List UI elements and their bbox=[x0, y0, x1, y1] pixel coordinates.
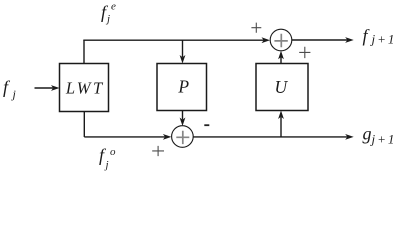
svg-text:j+1: j+1 bbox=[370, 32, 397, 47]
node f_j^e label bbox=[101, 1, 116, 26]
svg-text:g: g bbox=[363, 124, 372, 144]
adder circle (top sum) bbox=[270, 29, 292, 51]
plus sign at top adder bottom input bbox=[299, 47, 310, 58]
block LWT bbox=[60, 64, 109, 112]
svg-text:P: P bbox=[177, 77, 189, 97]
node g_j+1 label bbox=[363, 124, 397, 147]
wire bottom rail f_j^o into adder bbox=[84, 134, 171, 140]
wire top rail f_j^e bbox=[83, 37, 270, 43]
node f_j label bbox=[3, 77, 17, 101]
plus sign at adder left input bbox=[152, 146, 164, 156]
wire U output to top adder bbox=[278, 51, 284, 64]
wire output f_j+1 bbox=[292, 37, 354, 43]
plus sign at top adder left input bbox=[251, 23, 261, 33]
node f_j+1 label bbox=[363, 26, 397, 47]
svg-text:LWT: LWT bbox=[65, 79, 105, 98]
wire LWT top to top rail bbox=[83, 40, 85, 63]
wire input arrow into LWT bbox=[35, 85, 60, 91]
svg-text:U: U bbox=[274, 77, 288, 97]
block P bbox=[157, 64, 207, 111]
wire bottom rail output g_j+1 bbox=[193, 134, 354, 140]
node f_j^o label bbox=[99, 145, 116, 171]
wire LWT bottom to bottom rail bbox=[83, 112, 85, 138]
wire junction up to U bbox=[278, 111, 284, 137]
svg-text:e: e bbox=[111, 1, 116, 13]
minus sign at adder input from P bbox=[204, 124, 209, 126]
adder circle (bottom sum) bbox=[172, 126, 194, 148]
wire P output to subtractor bbox=[180, 111, 186, 127]
block U bbox=[256, 64, 308, 111]
svg-text:o: o bbox=[110, 146, 116, 158]
wire junction drop to P bbox=[180, 40, 186, 63]
svg-text:j+1: j+1 bbox=[370, 132, 397, 147]
